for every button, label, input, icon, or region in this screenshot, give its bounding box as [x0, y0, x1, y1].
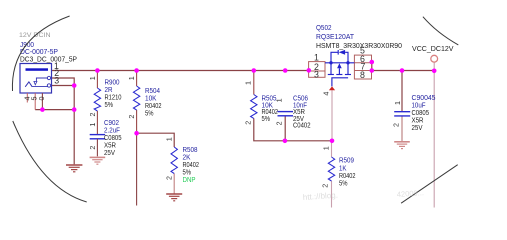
Q502 substrate arrow [337, 63, 342, 68]
annotation arc bottom-left [13, 121, 87, 202]
wire: VCC riser long vertical [433, 62, 435, 207]
svg-text:DC3_DC_0007_5P: DC3_DC_0007_5P [20, 55, 77, 64]
svg-text:2: 2 [88, 146, 97, 150]
svg-text:Q502: Q502 [316, 23, 332, 32]
svg-text:25V: 25V [412, 123, 423, 132]
Q502 body diode triangle [339, 50, 345, 55]
svg-text:4: 4 [322, 92, 331, 96]
svg-text:2: 2 [164, 176, 173, 180]
capacitor C506 [278, 112, 294, 115]
wire: J900 pin2 to junction [52, 78, 74, 86]
Q502 gate pin triangle [329, 86, 335, 90]
svg-text:HSMT8_3R30X3R30X0R90: HSMT8_3R30X3R30X0R90 [316, 41, 402, 50]
svg-text:5%: 5% [105, 100, 114, 109]
svg-text:1: 1 [164, 137, 173, 141]
wire: gate lower rail [254, 118, 332, 140]
capacitor C902 [90, 135, 105, 139]
connector pin2 internal line [36, 78, 49, 81]
wire: R504 long tail down [136, 133, 138, 205]
ground for C90045 [394, 142, 410, 149]
resistor R505 [253, 71, 255, 95]
wire: J900 pins 4/5 bottom horizontal [35, 109, 74, 111]
power terminal VCC_DC12V [431, 55, 438, 62]
svg-text:25V: 25V [104, 148, 115, 157]
svg-text:2: 2 [243, 121, 252, 125]
svg-text:1: 1 [88, 123, 97, 127]
connector pin3 internal line [32, 86, 49, 88]
svg-text:2: 2 [392, 123, 401, 127]
svg-text:1: 1 [314, 53, 319, 63]
wire: output rail to VCC [372, 70, 434, 72]
main source-drain line [325, 62, 354, 64]
wire: main top rail 12V from J900 pin1 to Q502 [52, 70, 309, 72]
connector switch symbol [25, 82, 32, 87]
channel dashes [328, 74, 334, 76]
annotation arc top-left [12, 16, 69, 91]
op-amp? no: MOSFET symbol of Q502 [325, 50, 354, 86]
wire: C90045 bottom stub to ground [401, 116, 403, 141]
wire: R504 bottom junction to R508 rail [137, 133, 175, 147]
svg-text:1: 1 [393, 101, 402, 105]
svg-text:5%: 5% [339, 178, 348, 187]
Q502 mosfet node dots [329, 61, 332, 64]
wire: Q502 drain pins 6-7 tie [371, 62, 373, 71]
wire: C506 bottom stub [284, 116, 286, 141]
transistor Q502 left pin box [309, 62, 325, 78]
svg-text:DNP: DNP [183, 175, 196, 184]
svg-text:2: 2 [88, 113, 97, 117]
connector center-pin bar [26, 68, 49, 71]
svg-text:5%: 5% [262, 114, 271, 123]
transistor Q502 right pin box [354, 55, 371, 79]
svg-text:3: 3 [54, 76, 59, 86]
svg-text:RQ3E120AT: RQ3E120AT [316, 32, 355, 41]
svg-text:3: 3 [314, 70, 319, 80]
wire: J900 pin3 to junction, down to gnd net [52, 86, 74, 110]
svg-text:1: 1 [88, 76, 97, 80]
svg-text:5%: 5% [145, 108, 154, 117]
wire: down to connector ground [73, 110, 75, 165]
wire: R509 top stub [331, 141, 333, 157]
connector bottom pin stubs 4,5,shield [26, 93, 28, 103]
ground for connector J900 [66, 165, 82, 172]
resistor R508 [173, 174, 175, 195]
svg-text:2: 2 [275, 121, 284, 125]
body diode loop [331, 52, 338, 63]
connector J900 box [20, 64, 52, 94]
capacitor C90045 [394, 112, 410, 116]
svg-text:2: 2 [127, 115, 136, 119]
connector pin2 circle [47, 76, 50, 79]
resistor R504 [136, 71, 138, 87]
svg-text:C0402: C0402 [293, 121, 311, 130]
svg-text:42009...: 42009... [397, 188, 425, 199]
gate bar and drop [332, 78, 348, 87]
svg-text:1: 1 [243, 81, 252, 85]
svg-text:8: 8 [360, 70, 365, 80]
svg-text:2: 2 [320, 184, 329, 188]
ground for C902 [90, 157, 106, 164]
svg-text:VCC_DC12V: VCC_DC12V [412, 44, 454, 53]
svg-text:1: 1 [275, 98, 284, 102]
resistor R900 [96, 71, 98, 89]
annotation arc top-right [423, 17, 458, 45]
svg-text:1: 1 [321, 146, 330, 150]
svg-text:0: 0 [37, 97, 46, 101]
channel verticals [330, 63, 332, 75]
ground for R508 [166, 194, 182, 201]
annotation arc bottom-right [401, 165, 458, 204]
resistor R509 [328, 157, 334, 181]
wire: C90045 top stub [401, 71, 403, 112]
svg-text:1: 1 [127, 76, 136, 80]
wire: Q502 gate tail down to lower rail [331, 90, 333, 141]
connector pin3 circle [47, 84, 50, 87]
wire: R509 bottom tail [331, 181, 333, 208]
